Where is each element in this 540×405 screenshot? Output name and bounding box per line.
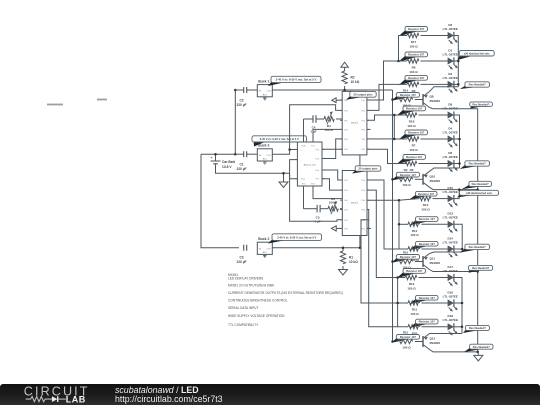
transistor Q12 2N3906 xyxy=(422,336,424,347)
wire row7 feed to row8 row9 link xyxy=(399,200,408,249)
svg-text:Q10: Q10 xyxy=(430,174,436,178)
svg-text:WIDE SUPPLY VOLTAGE OPERATION: WIDE SUPPLY VOLTAGE OPERATION xyxy=(228,314,285,318)
wire U2 pin4 down xyxy=(367,210,398,327)
wire R6 to D6 xyxy=(419,163,448,165)
svg-text:SERIAL DATA INPUT: SERIAL DATA INPUT xyxy=(228,306,258,310)
svg-text:Resistor 10?: Resistor 10? xyxy=(408,53,424,57)
svg-text:Resistor 10?: Resistor 10? xyxy=(400,335,416,339)
svg-text:R21: R21 xyxy=(403,330,409,334)
LED D16 LTL-307EE xyxy=(448,299,454,306)
svg-text:LTL-307EE: LTL-307EE xyxy=(443,190,458,194)
LED D14 LTL-307EE xyxy=(448,245,454,252)
svg-text:OUT: OUT xyxy=(267,91,272,93)
svg-text:Buck 2: Buck 2 xyxy=(258,237,269,241)
svg-text:MX451 20 OUTPUTS/5mA SINK: MX451 20 OUTPUTS/5mA SINK xyxy=(228,283,275,287)
capacitor C5 1 uF xyxy=(304,208,318,210)
battery V1 Car Batt 13.8 V xyxy=(211,161,221,164)
ground right bus xyxy=(477,352,479,356)
svg-text:20 output pins: 20 output pins xyxy=(353,93,373,97)
svg-text:3-40 V in: 9-30 V out, Set at: 3-40 V in: 9-30 V out, Set at 5 V xyxy=(277,235,316,239)
svg-text:Gnd: Gnd xyxy=(301,179,305,181)
LED driver U2 MM5451 xyxy=(342,171,367,236)
wire U1 pin5 to row5 xyxy=(367,138,407,140)
svg-text:100 Ω: 100 Ω xyxy=(409,70,418,74)
transistor Q11 2N3906 xyxy=(422,256,424,267)
svg-text:LTL-307EE: LTL-307EE xyxy=(443,155,458,159)
svg-text:Res Needed?: Res Needed? xyxy=(472,182,489,186)
wire R12 to D13 xyxy=(422,223,448,225)
svg-text:ADJ: ADJ xyxy=(263,158,267,161)
wire MCU right pin2 to U1 pin5 xyxy=(322,139,342,159)
wire U2 pin2 to row10 xyxy=(367,190,405,277)
svg-text:Resistor 10?: Resistor 10? xyxy=(400,93,416,97)
svg-text:LTL-307EE: LTL-307EE xyxy=(443,240,458,244)
wire base bus from +5V rail xyxy=(392,90,394,342)
svg-text:LED DISPLAY DRIVERS: LED DISPLAY DRIVERS xyxy=(228,276,263,280)
svg-text:Resistor 10?: Resistor 10? xyxy=(419,320,435,324)
svg-text:2N3906: 2N3906 xyxy=(430,179,441,183)
wire U1 pin6 to row6 xyxy=(367,149,407,163)
svg-text:Resistor 10?: Resistor 10? xyxy=(400,255,416,259)
wire U1 pin2 to row3 xyxy=(367,84,407,110)
wire R10 to D14 xyxy=(422,248,448,250)
resistor R6 100 Ohm xyxy=(397,157,417,164)
buck converter Buck 3 xyxy=(257,149,272,161)
LED D18 LTL-307EE xyxy=(448,323,454,330)
svg-text:Resistor 10?: Resistor 10? xyxy=(418,192,434,196)
wire battery negative xyxy=(216,164,290,174)
resistor R2 10 kOhm xyxy=(342,71,347,84)
svg-text:20 output pins: 20 output pins xyxy=(358,167,378,171)
buck converter Buck 2 xyxy=(257,242,272,254)
svg-text:LTL-307EE: LTL-307EE xyxy=(443,76,458,80)
svg-text:ADJ: ADJ xyxy=(263,94,267,97)
svg-text:Res Needed?: Res Needed? xyxy=(472,102,489,106)
wire row7 cathode up to ground bus wire xyxy=(454,190,459,199)
svg-text:Resistor 10?: Resistor 10? xyxy=(419,296,435,300)
wire R17 to D2 xyxy=(421,35,448,37)
wire Q10 emitter xyxy=(430,168,460,171)
flag x30 identical led sets row2 xyxy=(458,54,473,60)
capacitor C2 220 uF xyxy=(235,89,243,91)
wire MCU minus pin to battery negative rail xyxy=(290,160,298,174)
capacitor C1 220 uF xyxy=(235,153,243,155)
resistor R13 100 Ohm xyxy=(409,194,429,200)
svg-text:C1: C1 xyxy=(239,163,243,167)
wire MCU bottom pin2 to U2 pin3 xyxy=(313,186,342,199)
svg-text:100 Ω: 100 Ω xyxy=(402,183,411,187)
wire R7 to D4 xyxy=(421,138,448,140)
svg-text:100 Ω: 100 Ω xyxy=(407,286,416,290)
svg-text:LTL-307EE: LTL-307EE xyxy=(443,27,458,31)
wire R8 to D1 xyxy=(421,60,448,62)
wire group1 cathode bus xyxy=(454,36,458,87)
wire R19 to D17 xyxy=(419,277,448,279)
transistor Q8 2N3906 xyxy=(422,94,424,105)
wire R11 to D16 xyxy=(422,302,448,304)
svg-text:Resistor 10?: Resistor 10? xyxy=(419,242,435,246)
svg-text:Res Needed?: Res Needed? xyxy=(469,162,486,166)
LED D4 LTL-307EE xyxy=(448,135,454,142)
node R2 to rail junction xyxy=(343,89,346,92)
svg-text:Resistor 10?: Resistor 10? xyxy=(419,217,435,221)
resistor R3 100 Ohm potentiometer xyxy=(328,206,338,211)
stray annotation dash 1 xyxy=(47,104,63,106)
svg-text:100 Ω: 100 Ω xyxy=(402,103,411,107)
wire R13 to D15 xyxy=(433,198,448,200)
svg-text:OUT: OUT xyxy=(267,155,272,157)
svg-text:Res Needed?: Res Needed? xyxy=(469,245,486,249)
wire Q12 collector to ground xyxy=(430,350,478,352)
svg-text:100 Ω: 100 Ω xyxy=(329,201,338,205)
flag 20 output pins on U1 xyxy=(346,95,363,100)
wire Q11 emitter xyxy=(430,252,463,254)
resistor R17 100 Ohm xyxy=(399,29,419,36)
svg-text:R14: R14 xyxy=(403,88,409,92)
LED D1 LTL-307EE xyxy=(448,57,454,64)
wire U2 pin1 to row9 feed xyxy=(367,180,399,249)
buffer triangle at U2 pin 6 xyxy=(331,226,336,231)
svg-text:Resistor 10?: Resistor 10? xyxy=(408,27,424,31)
flag Res Needed? group2 emitter xyxy=(460,164,479,169)
wire MCU right pin4 to U2 pin2 xyxy=(322,179,342,190)
wire MCU top pin 2 to U1 pin 4 xyxy=(313,129,342,142)
wire +13.8V rail to buck converters xyxy=(201,153,235,155)
ground battery negative xyxy=(283,173,285,182)
microcontroller U3 Arduino Uno xyxy=(297,142,322,186)
svg-text:100 Ω: 100 Ω xyxy=(410,312,419,316)
svg-text:220 µF: 220 µF xyxy=(237,103,247,107)
LED D15 LTL-307EE xyxy=(448,195,454,202)
buffer triangle at U1 pin 1 xyxy=(332,98,336,103)
wire group2 cathode bus xyxy=(454,115,460,168)
flag Buck 2 setting 3-40 V in: 9-30 V out, Set at 5 V xyxy=(268,238,286,243)
svg-text:LAB: LAB xyxy=(66,395,86,405)
LED D3 LTL-307EE xyxy=(448,81,454,88)
capacitor C4 1 uF xyxy=(304,118,314,120)
wire group3 cathode bus xyxy=(454,224,462,252)
svg-text:10 kΩ: 10 kΩ xyxy=(349,260,358,264)
svg-text:2N3906: 2N3906 xyxy=(430,99,441,103)
resistor R1 10 kOhm xyxy=(342,248,344,251)
wire row10-row12 link bus xyxy=(398,278,408,327)
svg-text:2N3906: 2N3906 xyxy=(430,261,441,265)
svg-text:Res Needed?: Res Needed? xyxy=(469,326,486,330)
svg-text:Resistor 10?: Resistor 10? xyxy=(406,269,422,273)
svg-text:MX451: MX451 xyxy=(351,203,359,205)
flag Buck 1 setting 3-40 V in: 9-30 V out, Set at 5 V xyxy=(268,80,285,86)
wire U1 pin1 to row2 xyxy=(367,61,407,100)
svg-text:LTL-307EE: LTL-307EE xyxy=(443,269,458,273)
svg-text:10 kΩ: 10 kΩ xyxy=(351,80,360,84)
svg-text:2N3906: 2N3906 xyxy=(430,341,441,345)
wire group4 cathode bus xyxy=(454,278,462,334)
svg-text:Buck 3: Buck 3 xyxy=(258,144,269,148)
svg-text:Res Needed?: Res Needed? xyxy=(473,345,490,349)
flag Res Needed? collector junction xyxy=(462,184,483,189)
svg-text:Res Needed?: Res Needed? xyxy=(469,83,486,87)
wire MCU gnd pin xyxy=(290,173,298,178)
svg-text:Q11: Q11 xyxy=(430,257,436,261)
wire left rail down to Buck 2 xyxy=(201,154,239,248)
svg-text:LTL-307EE: LTL-307EE xyxy=(443,318,458,322)
svg-text:Q8: Q8 xyxy=(430,95,434,99)
wire Q8 emitter xyxy=(430,87,459,92)
svg-text:Resistor 10?: Resistor 10? xyxy=(408,76,424,80)
wire R18 to D8 xyxy=(419,114,448,116)
svg-text:LTL-307EE: LTL-307EE xyxy=(443,52,458,56)
svg-text:Res Needed?: Res Needed? xyxy=(472,266,489,270)
wire Buck 2 output rail xyxy=(272,247,360,249)
flag 20 output pins on U2 xyxy=(352,169,369,174)
wire R20 to D18 xyxy=(422,326,448,328)
svg-text:220 µF: 220 µF xyxy=(237,167,247,171)
svg-text:C3: C3 xyxy=(239,256,243,260)
wire U2 pin5 to row11 xyxy=(361,220,408,303)
svg-text:Resistor 10?: Resistor 10? xyxy=(400,173,416,177)
svg-text:100 Ω: 100 Ω xyxy=(410,233,419,237)
resistor R11 100 Ohm xyxy=(409,298,429,304)
wire MCU right pin3 to U2 pin1 xyxy=(322,170,342,180)
resistor R19 100 Ohm xyxy=(397,271,417,278)
svg-text:220 µF: 220 µF xyxy=(237,260,247,264)
svg-text:Q12: Q12 xyxy=(430,337,436,341)
svg-text:+: + xyxy=(211,156,213,160)
wire Buck 1 output +5V rail xyxy=(272,89,393,91)
svg-text:100 Ω: 100 Ω xyxy=(409,148,418,152)
wire U1 pin4 stub xyxy=(367,128,371,130)
svg-text:100 Ω: 100 Ω xyxy=(407,124,416,128)
flag Res Needed? group4 lower xyxy=(463,328,479,333)
wire battery negative branch to U2 pin5 xyxy=(290,173,343,221)
wire U2 pin3 to row7 xyxy=(367,199,419,201)
svg-text:Buck 1: Buck 1 xyxy=(258,79,269,83)
stray annotation dash 2 xyxy=(97,99,107,101)
wire MCU bottom pin1 down to C5 xyxy=(303,186,305,209)
footer bar xyxy=(0,384,540,405)
wire MCU top pin 1 up to C4 net xyxy=(303,119,305,142)
flag Buck 3 setting 3-40 V in: 9-30 V out, Set at 5 V xyxy=(254,140,266,147)
resistor R7 100 Ohm xyxy=(399,133,419,140)
flag Res Needed? group3 emitter xyxy=(460,247,478,252)
svg-text:CONTINUOUS BRIGHTNESS CONTROL: CONTINUOUS BRIGHTNESS CONTROL xyxy=(228,299,288,303)
svg-text:C2: C2 xyxy=(239,99,243,103)
LED D2 LTL-307EE xyxy=(448,32,454,39)
svg-text:100 Ω: 100 Ω xyxy=(421,207,430,211)
wire row1 to row2 link xyxy=(399,36,408,62)
svg-text:Car Batt: Car Batt xyxy=(222,160,236,164)
resistor R10 100 Ohm xyxy=(409,244,429,250)
wire U2 pin6 stub xyxy=(367,227,371,229)
wire R5 to D3 xyxy=(421,83,448,85)
wire to Buck 1 input xyxy=(235,90,239,154)
wire Q10 collector to ground bus xyxy=(430,187,478,189)
resistor R12 100 Ohm xyxy=(409,219,429,225)
svg-text:1 µF: 1 µF xyxy=(310,130,316,134)
wire row4 to row5 link xyxy=(393,115,395,139)
node battery positive junction xyxy=(214,153,217,156)
svg-text:OUT: OUT xyxy=(267,248,272,250)
svg-text:Resistor 10?: Resistor 10? xyxy=(406,155,422,159)
svg-text:3-40 V in: 9-30 V out, Set at: 3-40 V in: 9-30 V out, Set at 5 V xyxy=(276,78,317,82)
svg-text:LTL-307EE: LTL-307EE xyxy=(443,216,458,220)
resistor R18 100 Ohm xyxy=(397,109,417,116)
svg-text:R1: R1 xyxy=(349,256,353,260)
svg-text:R2: R2 xyxy=(351,76,355,80)
wire Q11 collector to ground bus xyxy=(430,270,478,272)
svg-text:TTL COMPATIBILITY: TTL COMPATIBILITY xyxy=(228,323,259,327)
wire serial data from Buck3 node up to U1 pin2 xyxy=(290,105,343,150)
svg-text:100 Ω: 100 Ω xyxy=(402,265,411,269)
LED driver U1 MM5451 xyxy=(342,91,367,154)
flag Res Needed? at Q8 collector xyxy=(471,104,484,108)
wire U2 bottom pin to rail xyxy=(359,236,361,248)
svg-text:LTL-307EE: LTL-307EE xyxy=(443,294,458,298)
wire Q8 collector to ground bus xyxy=(430,108,478,352)
svg-text:ADJ: ADJ xyxy=(263,251,267,254)
svg-text:CURRENT GENERATOR OUTPUTS (NO: CURRENT GENERATOR OUTPUTS (NO EXTERNAL R… xyxy=(228,291,343,295)
wire U1 pin3 to row4 xyxy=(367,115,407,120)
svg-text:13.8 V: 13.8 V xyxy=(222,165,232,169)
wire Buck 3 output to MCU xyxy=(272,150,297,155)
LED D6 LTL-307EE xyxy=(448,160,454,167)
svg-text:Arduino Uno: Arduino Uno xyxy=(304,163,317,166)
flag Res Needed? at Q11 collector xyxy=(469,268,483,273)
svg-text:MX451: MX451 xyxy=(351,123,359,125)
svg-text:100 Ω: 100 Ω xyxy=(409,44,418,48)
resistor R4 100 Ohm potentiometer xyxy=(324,117,334,122)
svg-text:x30 identical led sets: x30 identical led sets xyxy=(466,191,493,195)
LED D13 LTL-307EE xyxy=(448,221,454,228)
svg-text:100 Ω: 100 Ω xyxy=(325,128,334,132)
svg-text:R9: R9 xyxy=(404,168,408,172)
svg-text:LTL-307EE: LTL-307EE xyxy=(443,130,458,134)
svg-text:Resistor 10?: Resistor 10? xyxy=(408,131,424,135)
svg-text:R15: R15 xyxy=(403,250,409,254)
resistor R5 100 Ohm xyxy=(399,78,419,85)
LED D17 LTL-307EE xyxy=(448,274,454,281)
buck converter Buck 1 xyxy=(257,85,272,97)
flag x30 identical led sets row7 xyxy=(457,193,473,197)
svg-text:100 Ω: 100 Ω xyxy=(402,345,411,349)
resistor R20 100 Ohm xyxy=(409,322,429,328)
flag Res Needed? at Q12 collector xyxy=(464,347,483,352)
flag Res Needed? group1 emitter xyxy=(460,85,479,89)
resistor R8 100 Ohm xyxy=(399,55,419,62)
capacitor C3 220 uF xyxy=(244,245,247,251)
CircuitLab logo xyxy=(0,384,95,405)
LED D8 LTL-307EE xyxy=(448,111,454,118)
wire Q12 emitter xyxy=(430,333,463,335)
svg-text:3-40 V in: 9-30 V out, Set at: 3-40 V in: 9-30 V out, Set at 5 V xyxy=(260,137,299,141)
power flag V+ above R2 xyxy=(341,62,348,67)
svg-text:x30 identical led sets: x30 identical led sets xyxy=(464,51,491,55)
wire U1 ground pin down xyxy=(359,155,361,167)
wire MCU right pin1 to U1 pin6 xyxy=(322,148,342,150)
transistor Q10 2N3906 xyxy=(422,174,424,185)
ground below R1 xyxy=(339,270,348,276)
